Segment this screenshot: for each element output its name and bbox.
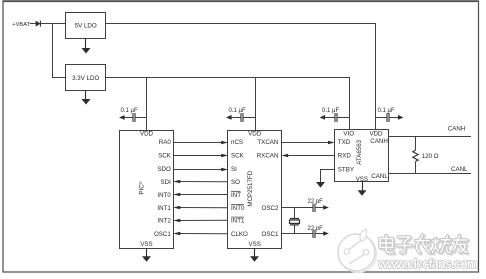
wire SDO to SI with arrow (174, 168, 228, 172)
CAN transceiver U3 ATA6563 (335, 130, 389, 183)
svg-text:CANL: CANL (451, 166, 468, 173)
capacitor C2 0.1 uF (226, 108, 255, 122)
wire OSC1 stub (282, 233, 313, 235)
svg-text:CANL: CANL (371, 173, 388, 180)
ground arrow under MCP VSS (250, 249, 259, 262)
svg-text:CANH: CANH (370, 138, 388, 145)
wire CANH net (389, 136, 472, 138)
svg-text:OSC2: OSC2 (262, 205, 279, 212)
svg-text:TXD: TXD (338, 139, 351, 146)
svg-text:PIC®: PIC® (138, 181, 146, 194)
svg-text:CANH: CANH (448, 125, 466, 132)
wire STBY to ground (321, 170, 335, 183)
svg-text:OSC1: OSC1 (154, 231, 171, 238)
wire RXD to RXCAN with arrow (282, 154, 335, 158)
wire SO to SDI with arrow (173, 180, 227, 184)
capacitor C3 0.1 uF (320, 108, 350, 122)
svg-text:INT0: INT0 (231, 205, 245, 212)
MCU U1 PIC (120, 131, 174, 249)
ground arrow under 5V LDO (82, 39, 91, 54)
svg-text:SI: SI (231, 166, 237, 173)
wire INT to INT0 with arrow (173, 193, 227, 197)
crystal Y1 (290, 208, 300, 234)
svg-text:INT2: INT2 (157, 218, 171, 225)
wire 3.3V to MCP VDD (255, 78, 257, 131)
capacitor C1 0.1 uF (119, 108, 147, 122)
svg-text:INT1: INT1 (157, 205, 171, 212)
wire TXCAN to TXD with arrow (282, 141, 335, 145)
svg-text:3.3V LDO: 3.3V LDO (72, 75, 99, 82)
wire VBAT to diode (30, 23, 36, 25)
ground arrow under PIC VSS (142, 249, 151, 262)
svg-text:RXD: RXD (338, 153, 352, 160)
svg-text:VDD: VDD (248, 131, 262, 138)
diode D1 (36, 21, 41, 27)
svg-text:STBY: STBY (338, 166, 354, 173)
capacitor C6 22 pF (308, 226, 329, 238)
wire INT0 to INT1 with arrow (173, 206, 227, 210)
svg-text:120 Ω: 120 Ω (422, 153, 439, 160)
capacitor C5 22 pF (308, 199, 329, 212)
svg-text:www.elecfans.com: www.elecfans.com (377, 257, 478, 271)
CAN controller U2 MCP2517FD (228, 131, 282, 249)
capacitor C4 0.1 uF (376, 108, 404, 122)
regulator 3.3V LDO (66, 65, 106, 91)
svg-text:VSS: VSS (356, 176, 368, 183)
svg-text:INT: INT (231, 192, 241, 199)
svg-text:SCK: SCK (231, 153, 245, 160)
svg-text:OSC1: OSC1 (262, 231, 279, 238)
wire VBAT branch down to 3.3V LDO (53, 24, 66, 78)
wire OSC2 stub (282, 207, 313, 209)
ground arrow under ATA VSS (358, 182, 367, 196)
wire INT1 to INT2 with arrow (173, 219, 227, 223)
svg-text:SDO: SDO (157, 166, 171, 173)
svg-text:MCP2517FD: MCP2517FD (247, 170, 254, 206)
svg-text:VSS: VSS (140, 241, 152, 248)
svg-text:CLKO: CLKO (231, 231, 248, 238)
resistor R1 120 Ohm (413, 137, 439, 174)
svg-text:5V LDO: 5V LDO (75, 23, 97, 30)
svg-text:VDD: VDD (140, 131, 154, 138)
wire RA0 to nCS with arrow (174, 141, 228, 145)
watermark logo circle (338, 229, 377, 272)
wire 3.3V rail (106, 78, 350, 130)
svg-text:VSS: VSS (249, 241, 261, 248)
svg-text:SDI: SDI (160, 179, 171, 186)
svg-text:INT0: INT0 (157, 192, 171, 199)
wire diode to 5V LDO (40, 23, 66, 25)
wire 5V rail (106, 24, 376, 130)
ground arrow under 3.3V LDO (82, 91, 91, 105)
svg-text:+VBAT: +VBAT (12, 22, 30, 28)
svg-text:VDD: VDD (369, 130, 383, 137)
wire SCK to SCK with arrow (174, 154, 228, 158)
svg-text:RA0: RA0 (159, 139, 172, 146)
svg-text:RXCAN: RXCAN (257, 153, 279, 160)
svg-text:INT1: INT1 (231, 218, 245, 225)
wire CANL net (389, 173, 472, 175)
svg-text:0.1 µF: 0.1 µF (378, 108, 395, 114)
watermark text dian zi fa shao you (380, 235, 468, 254)
svg-text:SO: SO (231, 179, 240, 186)
svg-text:ATA6563: ATA6563 (356, 139, 363, 164)
ground arrow STBY (316, 182, 325, 188)
svg-text:nCS: nCS (231, 139, 243, 146)
svg-text:TXCAN: TXCAN (257, 139, 278, 146)
wire CLKO to OSC1 with arrow (173, 232, 227, 236)
svg-text:VIO: VIO (343, 130, 354, 137)
svg-text:SCK: SCK (158, 153, 172, 160)
wire 3.3V to PIC VDD (146, 78, 148, 131)
regulator 5V LDO (66, 13, 106, 39)
